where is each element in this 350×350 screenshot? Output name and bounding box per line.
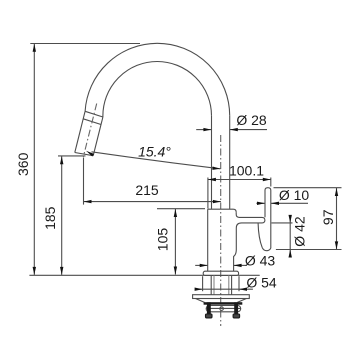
clamp center screw circle [220,307,224,311]
base plate [193,295,250,299]
base plate left bevel [196,299,205,303]
dim d42 line [289,216,291,257]
shank neck outer left [210,276,212,295]
left bolt [207,302,211,314]
nozzle joint line lower [83,119,101,125]
shared bottom extension 97 and d42 [276,249,342,251]
arrow d10 right inward [271,202,279,205]
dim d54 line [195,288,253,290]
arrow 105 up [174,209,177,217]
svg-text:100.1: 100.1 [229,163,264,179]
dim 97 line [336,188,338,249]
dim d54 right extension [238,276,240,291]
base plate right bevel [237,299,246,303]
arrow d10 left inward [257,202,265,205]
svg-text:15.4°: 15.4° [138,144,171,160]
arrow 215 left [84,200,92,203]
arrow d28 right inward [230,128,238,131]
dim 100.1 line [208,179,271,181]
svg-text:97: 97 [320,209,336,225]
dim d54 left extension [202,276,204,291]
riser right edge [229,116,231,209]
dim d28 right segment [230,129,267,131]
dim 100.1 left extension [207,178,209,209]
escutcheon flange [203,271,238,275]
svg-text:185: 185 [42,206,58,230]
shank neck inner left [213,276,215,295]
dim d28 left segment [196,129,211,131]
arrow d28 left inward [203,128,211,131]
nozzle bottom face [75,153,93,156]
arrow d54 left [195,288,203,291]
spout inner arc [103,62,212,118]
arrow 215 right [213,200,221,203]
right bolt foot [233,314,240,318]
clamp bar mid line [206,307,241,309]
handle bar top cap [265,188,271,249]
arrow 360 down [33,267,36,275]
handle bottom cap [262,248,271,251]
deck line [29,274,259,276]
dim 185 top extension [58,155,86,157]
arrow 185 up [60,156,63,164]
dim d42 top extension [272,222,293,224]
dim 215 left extension [83,158,85,205]
arrow 97 down [335,241,338,249]
dim 185 line [61,156,63,275]
arrow 100.1 left [208,178,216,181]
arrow 100.1 right [263,178,271,181]
svg-text:Ø 54: Ø 54 [246,275,277,291]
handle cone diagonal [258,223,262,247]
shank neck inner right [228,276,230,295]
arrow 97 up [335,188,338,196]
dim 360 top extension [30,43,140,45]
dim 360 line [33,44,35,275]
spout outer arc [85,43,230,116]
svg-text:Ø 42: Ø 42 [292,216,308,247]
svg-text:Ø 28: Ø 28 [236,112,267,128]
arrow angle right [212,167,220,170]
left bolt foot [206,314,213,318]
dim 105 line [174,209,176,275]
shank neck outer right [231,276,233,295]
dim d10 left segment [256,202,265,204]
arrow d42 bottom [289,250,292,258]
svg-text:215: 215 [135,182,159,198]
dim 105 top extension [157,208,205,210]
nozzle joint line upper [85,111,103,117]
svg-text:Ø 43: Ø 43 [245,252,276,268]
nozzle left edge [75,111,85,152]
dim d43 line right segment [234,264,247,266]
arrow d42 top [289,215,292,223]
arrowheads [33,44,339,291]
arrow 185 down [60,267,63,275]
arrow d43 right [234,264,242,267]
dimension lines [30,44,341,292]
nozzle right edge [93,117,103,156]
arrow d43 left [200,264,208,267]
right bolt [234,302,238,314]
svg-text:360: 360 [15,152,31,176]
svg-text:Ø 10: Ø 10 [279,187,310,203]
arrow 105 down [174,267,177,275]
arrow 360 up [33,44,36,52]
svg-text:105: 105 [155,228,171,252]
dim 100.1 right extension [270,178,272,187]
nozzle centerline [83,104,96,157]
body right profile with lever arm [234,212,265,271]
dim 97 top extension [274,187,342,189]
arrow angle left [86,151,94,157]
clamp bar [206,306,241,312]
rubber gasket [204,302,243,305]
arrow d54 right [239,288,247,291]
riser centerline [220,135,222,326]
angle 15.4 arc [92,152,221,169]
dim d43 line left segment [195,264,208,266]
dim d10 right segment [271,202,308,204]
body left edge [207,209,209,271]
body top edge [208,209,237,212]
riser left edge [211,116,213,209]
dim 215 line [84,201,221,203]
